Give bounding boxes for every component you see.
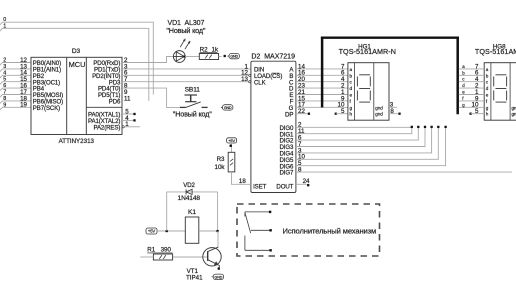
bus vertical left (segments at HG1)	[321, 37, 324, 108]
wire segment F D2 to HG1	[296, 100, 348, 102]
wire +5V to K1 coil	[157, 230, 185, 232]
junction square contact bottom	[269, 249, 271, 251]
wire DIG1 riser	[296, 127, 412, 133]
svg-text:R3: R3	[217, 156, 225, 163]
IC D2 MAX7219 display driver	[241, 53, 305, 192]
wire collector down to VT1	[217, 231, 219, 247]
junction square HG1 h	[335, 113, 337, 115]
svg-text:VD2: VD2	[183, 182, 195, 189]
wire keyboard line 7 to MCU pin 17	[0, 90, 31, 99]
junction square contact top	[269, 211, 271, 213]
svg-text:D3: D3	[72, 48, 81, 55]
wire +5V rail up to VD2	[166, 192, 168, 231]
wire keyboard line 6 to MCU pin 16	[0, 83, 31, 92]
pushbutton SB11	[173, 86, 212, 118]
wire bus tap a to HG8	[459, 64, 484, 69]
svg-text:R1: R1	[147, 247, 155, 254]
svg-text:PB7(SCK): PB7(SCK)	[33, 105, 60, 112]
svg-text:SB11: SB11	[185, 86, 201, 93]
wire R2 to GND	[219, 56, 222, 58]
junction square R2-GND	[224, 55, 226, 57]
wire DIG7	[296, 171, 512, 173]
svg-text:10k: 10k	[215, 164, 226, 171]
svg-text:a: a	[350, 67, 353, 72]
svg-text:ISET: ISET	[253, 183, 267, 190]
wire bus tap c to HG8	[459, 77, 484, 82]
display HG8 TQS-5161AMR-N	[472, 43, 516, 120]
junction dot collector node	[216, 230, 219, 233]
junction square DIG5	[437, 126, 439, 128]
wire PA1 stub	[122, 119, 136, 121]
wire DOUT pin 24 stub	[296, 178, 310, 185]
IC D3 ATtiny2313 microcontroller	[20, 48, 131, 145]
svg-text:390: 390	[161, 247, 172, 254]
svg-text:h: h	[486, 112, 489, 117]
svg-text:TIP41: TIP41	[186, 275, 203, 282]
wire square to HG1 pin 5	[336, 113, 348, 115]
wire keyboard line 0 to MCU	[0, 17, 153, 94]
svg-text:h: h	[350, 112, 353, 117]
ground GND at SB11	[221, 105, 233, 110]
junction square DIG2	[417, 126, 419, 128]
junction square HG8 h	[469, 113, 471, 115]
wire DIG6 riser	[296, 127, 446, 165]
junction square emitter	[218, 267, 220, 269]
bus vertical right (segments at HG8)	[456, 37, 459, 115]
svg-text:11: 11	[124, 95, 131, 102]
svg-text:DOUT: DOUT	[276, 183, 293, 190]
svg-text:TQS-5161AMR-N: TQS-5161AMR-N	[475, 47, 516, 56]
svg-text:TQS-5161AMR-N: TQS-5161AMR-N	[339, 47, 396, 56]
display HG1 TQS-5161AMR-N	[338, 43, 398, 120]
junction square contact middle	[269, 229, 271, 231]
wire segment DP stub from D2	[296, 113, 308, 115]
svg-text:DP: DP	[285, 111, 293, 118]
wire +5V to R3	[231, 143, 233, 152]
wire LED to R2	[185, 56, 199, 58]
LED VD1 AL307	[166, 20, 205, 63]
wire keyboard line 1 to MCU	[0, 23, 149, 101]
svg-text:gnd: gnd	[512, 105, 516, 110]
svg-text:a: a	[486, 67, 489, 72]
svg-text:13: 13	[241, 76, 248, 83]
svg-text:gnd: gnd	[512, 112, 516, 117]
wire bus tap d to HG8	[459, 83, 484, 88]
wire keyboard line 9 to MCU pin 19	[0, 102, 31, 111]
svg-text:19: 19	[20, 102, 27, 109]
svg-text:GND: GND	[230, 55, 238, 59]
diode VD2 1N4148 flyback	[167, 182, 218, 202]
wire segment B D2 to HG1	[296, 74, 348, 76]
svg-text:18: 18	[239, 178, 246, 185]
wire R1 left stub	[140, 256, 153, 258]
wire keyboard line 2 to MCU pin 12	[0, 58, 31, 67]
svg-text:Исполнительный механизм: Исполнительный механизм	[283, 227, 377, 236]
svg-text:e: e	[350, 93, 353, 98]
wire keyboard line 5 to MCU pin 15	[0, 77, 31, 86]
svg-text:"Новый код": "Новый код"	[173, 110, 212, 119]
wire keyboard line 3 to MCU pin 13	[0, 64, 31, 73]
svg-text:d: d	[350, 86, 353, 91]
wire PA2(RES) stub	[124, 126, 140, 128]
wire bus tap b to HG8	[459, 70, 484, 75]
wire DIG2 riser	[296, 127, 418, 140]
wire bus tap f to HG8	[459, 96, 484, 101]
svg-text:g: g	[486, 105, 489, 110]
svg-text:gnd: gnd	[375, 112, 383, 117]
svg-text:8: 8	[390, 108, 394, 115]
wire PA0 stub	[122, 113, 136, 115]
wire PD0 to LED VD1	[122, 57, 173, 63]
ground GND at VT1	[212, 274, 224, 279]
wire segment E D2 to HG1	[296, 94, 348, 96]
bus horizontal top	[321, 37, 459, 39]
wire segment C D2 to HG1	[296, 81, 348, 83]
svg-text:GND: GND	[215, 275, 223, 279]
wire segment D D2 to HG1	[296, 87, 348, 89]
junction square DOUT	[307, 184, 309, 186]
svg-text:+5V: +5V	[228, 138, 235, 143]
wire DIG3 riser	[296, 127, 425, 146]
svg-text:5: 5	[341, 108, 345, 115]
wire segment G D2 to HG1	[296, 106, 348, 108]
svg-text:1N4148: 1N4148	[178, 195, 201, 202]
wire PD3 to CLK	[122, 81, 249, 83]
svg-text:b: b	[350, 73, 353, 78]
junction dot +5V rail	[165, 230, 168, 233]
relay contact K1.1	[245, 212, 270, 250]
svg-text:g: g	[350, 105, 353, 110]
svg-text:+5V: +5V	[148, 229, 156, 234]
wire keyboard line 8 to MCU pin 18	[0, 96, 31, 105]
wire DIG5 riser	[296, 127, 438, 159]
wire K1 coil to collector	[199, 230, 218, 232]
wire keyboard line 4 to MCU pin 14	[0, 70, 31, 79]
junction square DP	[308, 113, 310, 115]
wire HG8 h square to pin 5	[471, 113, 485, 115]
svg-text:d: d	[486, 86, 489, 91]
svg-text:e: e	[486, 93, 489, 98]
wire segment A D2 to HG1	[296, 68, 348, 70]
svg-text:PD6: PD6	[109, 99, 121, 106]
svg-text:gnd: gnd	[375, 105, 383, 110]
resistor R2 1k	[199, 46, 219, 59]
wire bus tap g to HG8	[459, 102, 484, 107]
wire bus tap e to HG8	[459, 90, 484, 95]
svg-text:K1: K1	[188, 209, 196, 216]
junction square DIG4	[430, 126, 432, 128]
transistor VT1 TIP41	[186, 247, 221, 281]
svg-text:D2 MAX7219: D2 MAX7219	[251, 53, 295, 60]
svg-text:GND: GND	[224, 106, 232, 110]
svg-text:"Новый код": "Новый код"	[166, 26, 205, 35]
wire VD2 to collector node	[217, 192, 219, 231]
junction square DIG6	[444, 126, 446, 128]
ground GND at R2	[227, 53, 239, 58]
svg-text:b: b	[486, 73, 489, 78]
relay coil K1	[185, 209, 199, 243]
wire PD1 to DIN	[122, 68, 251, 70]
resistor R3 10k	[215, 152, 235, 172]
wire PD4 to SB11	[122, 88, 180, 107]
wire R3 to ISET pin 18	[232, 172, 251, 185]
power +5V at R3	[227, 138, 237, 143]
svg-text:DIG7: DIG7	[279, 170, 294, 177]
svg-text:CLK: CLK	[254, 79, 266, 86]
wire R1 to VT1 base	[173, 256, 208, 258]
junction square DIG1	[411, 126, 413, 128]
junction square HG1 gnd pin 8	[398, 113, 400, 115]
junction square DIG3	[424, 126, 426, 128]
dashed box actuator (Исполнительный механизм)	[237, 204, 380, 256]
wire DIG4 riser	[296, 127, 432, 153]
svg-text:PA2(RES): PA2(RES)	[93, 124, 120, 131]
svg-text:MCU: MCU	[69, 60, 86, 69]
junction dot +5V-R3	[229, 144, 232, 147]
wire emitter to GND	[218, 266, 221, 268]
wire DIG0	[296, 126, 412, 128]
svg-text:ATTINY2313: ATTINY2313	[59, 138, 95, 145]
resistor R1 390	[147, 247, 172, 261]
wire PD2 to LOAD	[122, 74, 249, 76]
power +5V at K1	[146, 228, 157, 234]
